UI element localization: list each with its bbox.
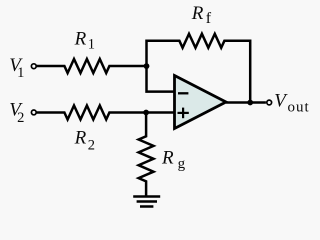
svg-text:R: R: [191, 3, 204, 24]
svg-text:1: 1: [88, 37, 95, 53]
svg-text:R: R: [161, 147, 174, 168]
svg-text:2: 2: [17, 110, 24, 126]
svg-text:f: f: [206, 10, 212, 27]
svg-text:out: out: [288, 99, 310, 115]
svg-text:g: g: [178, 156, 186, 172]
svg-text:2: 2: [88, 137, 95, 153]
svg-text:R: R: [74, 128, 87, 149]
svg-text:1: 1: [17, 65, 24, 81]
svg-text:R: R: [74, 29, 87, 50]
